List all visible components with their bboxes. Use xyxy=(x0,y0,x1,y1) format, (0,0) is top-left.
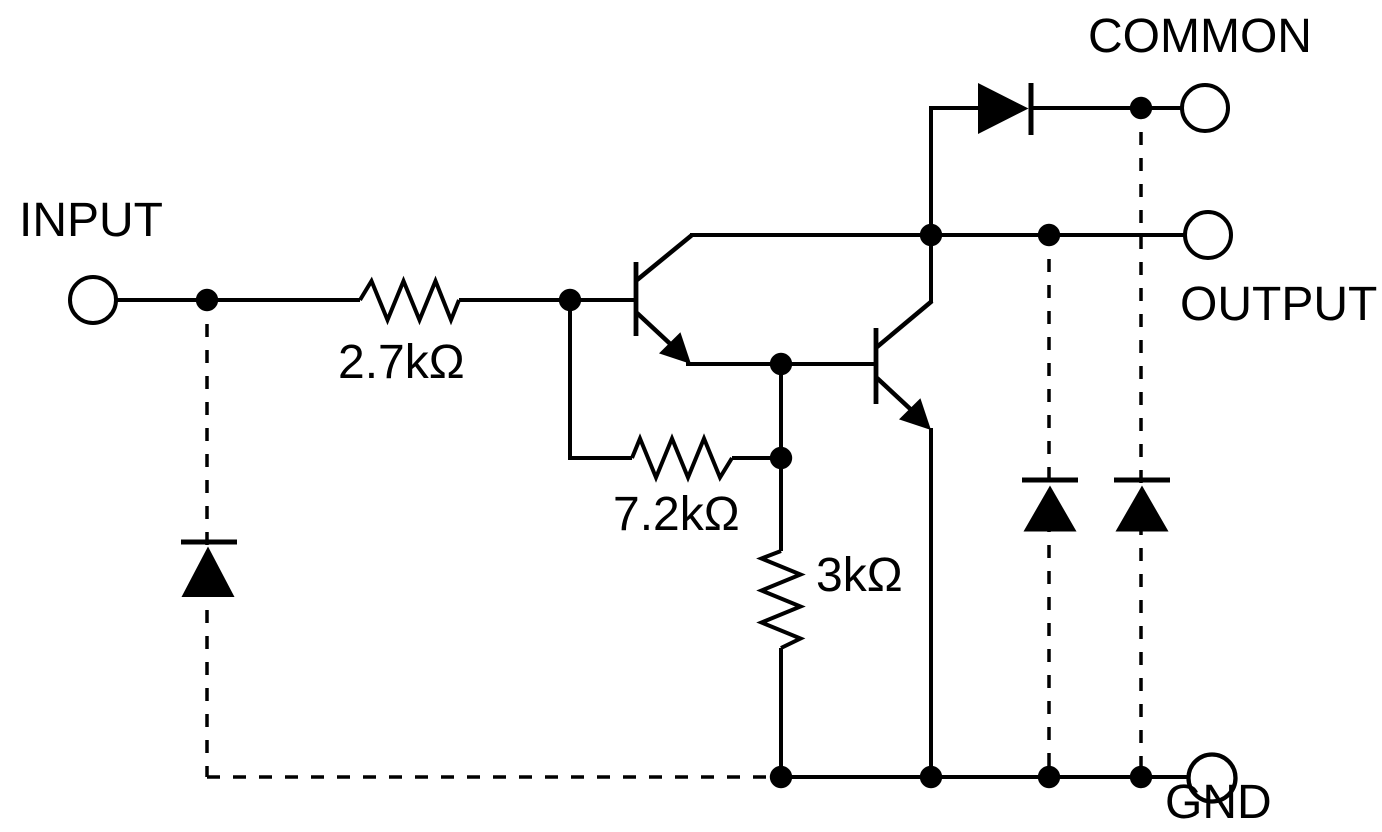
resistor 3k xyxy=(762,551,801,648)
resistor 7.2k xyxy=(632,439,732,478)
svg-text:2.7kΩ: 2.7kΩ xyxy=(338,336,465,389)
diode D2 input clamp xyxy=(181,540,237,545)
svg-text:3kΩ: 3kΩ xyxy=(816,549,903,602)
node Q1 base junction xyxy=(559,289,581,311)
wire common rail top xyxy=(929,106,978,110)
transistor Q2 base bar xyxy=(874,328,879,404)
wire dashed output clamp 1 xyxy=(1047,246,1051,777)
svg-text:COMMON: COMMON xyxy=(1088,10,1312,63)
node ground rail 4 xyxy=(1130,766,1152,788)
wire input to resistor xyxy=(116,298,360,302)
diode D3 output clamp 1 xyxy=(1022,478,1078,483)
transistor Q1 emitter xyxy=(637,313,680,353)
terminal INPUT xyxy=(70,277,116,323)
wire Q2 emitter vertical xyxy=(929,428,933,779)
transistor Q2 collector xyxy=(877,301,932,347)
wire feedback vertical from Q1 base node xyxy=(570,300,632,458)
resistor 2.7k xyxy=(360,281,459,320)
wire diode to COMMON terminal xyxy=(1031,106,1182,110)
terminal OUTPUT xyxy=(1185,212,1231,258)
node ground rail 1 xyxy=(770,766,792,788)
wire Q1 emitter to Q2 base xyxy=(686,362,874,366)
transistor Q1 collector xyxy=(637,235,692,280)
svg-text:INPUT: INPUT xyxy=(19,194,163,247)
svg-text:7.2kΩ: 7.2kΩ xyxy=(613,488,740,541)
wire dashed output clamp 2 xyxy=(1139,119,1143,777)
node ground rail 3 xyxy=(1038,766,1060,788)
node ground rail 2 xyxy=(920,766,942,788)
node common junction xyxy=(1130,97,1152,119)
wire ground rail xyxy=(781,775,1190,779)
wire 3k to ground rail xyxy=(779,648,783,779)
node output rail left xyxy=(920,224,942,246)
wire Q2 collector vertical xyxy=(929,106,933,303)
terminal GND xyxy=(1189,755,1236,802)
svg-text:GND: GND xyxy=(1165,776,1272,829)
transistor Q1 base bar xyxy=(634,262,639,336)
wire dashed input clamp vertical xyxy=(205,311,209,777)
node 7.2k junction xyxy=(770,447,792,469)
wire dashed ground return horizontal xyxy=(207,775,781,779)
transistor Q2 emitter xyxy=(877,378,920,418)
diode D1 common xyxy=(978,83,1029,134)
wire Q1 collector rail xyxy=(690,233,1186,237)
wire resistor to Q1 base xyxy=(459,298,634,302)
terminal COMMON xyxy=(1182,85,1228,131)
wire Q2 base node down xyxy=(779,364,783,551)
node Q1 emitter junction xyxy=(770,353,792,375)
wire 7.2k to node xyxy=(732,456,781,460)
node output rail right xyxy=(1038,224,1060,246)
diode D4 output clamp 2 xyxy=(1114,478,1170,483)
svg-text:OUTPUT: OUTPUT xyxy=(1180,278,1377,331)
node input junction xyxy=(196,289,218,311)
